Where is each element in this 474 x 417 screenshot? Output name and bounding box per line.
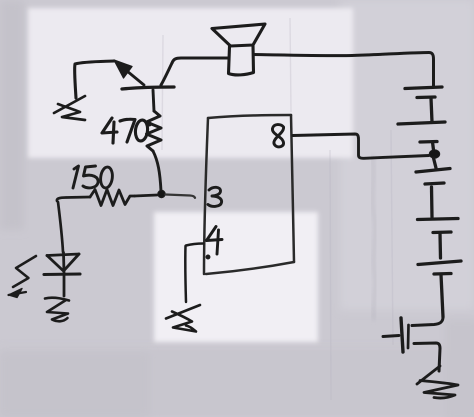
wire: emitter to top-left corner [75, 61, 114, 98]
white-out patch upper [28, 8, 353, 158]
wire: base lead down [153, 90, 154, 111]
battery end cell (sideways plates) [383, 318, 409, 352]
node A (junction dot) [158, 190, 165, 197]
faint paper creases [162, 18, 393, 400]
ground GND1 (top-left) [54, 96, 85, 120]
LED light arrows (scribble) [9, 256, 37, 298]
IC U1 (box) [204, 115, 294, 274]
wire: R1 to node A [153, 151, 161, 191]
node B (battery tap dot) [429, 150, 439, 158]
wire: node A to pin 3 [166, 195, 196, 198]
pin label 8 [272, 125, 283, 147]
pin label 4 [207, 227, 223, 259]
battery B1 cell 2 [398, 122, 445, 150]
battery B1 cell 3 [416, 158, 450, 217]
ghost bleed-through marks [372, 155, 375, 320]
speaker SP1 (cone) [212, 24, 265, 46]
label 150 [73, 166, 114, 189]
pin label 3 [208, 187, 222, 206]
battery B1 cell 5 [418, 261, 461, 317]
wire: pin 4 stub and down [185, 244, 203, 303]
wire: side cell to ground [414, 343, 440, 371]
battery B1 cell 4 [418, 219, 459, 259]
white-out patch middle [154, 212, 318, 342]
wire: down-corner to side cell [412, 317, 443, 326]
speaker SP1 (magnet box) [229, 46, 254, 75]
wire: collector to speaker [172, 58, 229, 63]
wire: speaker to battery top [254, 53, 434, 88]
LED D1 [44, 253, 80, 297]
wire: left branch down to LED [58, 202, 63, 252]
transistor Q1 [114, 60, 174, 89]
ground GND4 (battery bottom) [417, 366, 458, 398]
label 470 [102, 118, 150, 143]
wire: R2 to node A [135, 195, 158, 196]
resistor R2 150 (horizontal zigzag) [90, 190, 135, 206]
ground GND2 (below LED) [45, 298, 69, 322]
battery B1 cell 1 [405, 87, 442, 122]
ground GND3 (pin 4) [166, 305, 200, 332]
resistor R1 470 (vertical zigzag) [147, 111, 162, 151]
wire: left corner to R2 [57, 197, 90, 201]
wire: pin 8 to battery node [293, 134, 429, 158]
